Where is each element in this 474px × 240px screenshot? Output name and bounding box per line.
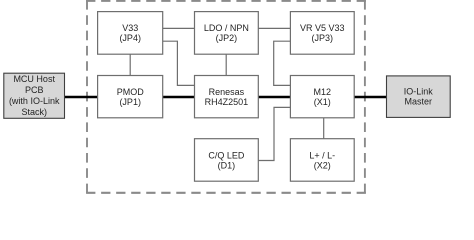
svg-text:L+ / L-: L+ / L- (309, 150, 335, 160)
wire (thick) M12 to IO-Link Master (354, 96, 386, 98)
block M12 (X1) (290, 76, 354, 118)
dashed evaluation-board boundary (86, 0, 366, 193)
wire (thick) Renesas to M12 (258, 96, 290, 98)
svg-text:(JP3): (JP3) (312, 33, 334, 43)
block V33 (JP4) (98, 12, 163, 55)
block MCU Host PCB (gray, external) (4, 73, 65, 118)
wire M12 to L+/L- (323, 118, 325, 139)
svg-text:IO-Link: IO-Link (404, 87, 434, 97)
svg-text:RH4Z2501: RH4Z2501 (205, 97, 249, 107)
svg-text:M12: M12 (314, 87, 332, 97)
wire LDO/NPN to VR V5 V33 (258, 27, 290, 29)
wire V33 to Renesas (elbow) (163, 41, 195, 85)
svg-text:MCU Host: MCU Host (13, 74, 55, 84)
block PMOD (JP1) (98, 76, 163, 118)
wire V33 to PMOD (129, 54, 131, 75)
block C/Q LED (D1) (195, 139, 259, 182)
svg-text:(X1): (X1) (314, 97, 331, 107)
svg-text:C/Q LED: C/Q LED (208, 150, 245, 160)
svg-text:Master: Master (405, 97, 433, 107)
svg-text:(D1): (D1) (218, 160, 236, 170)
block LDO / NPN (JP2) (195, 12, 259, 55)
svg-text:(with IO-Link: (with IO-Link (9, 96, 60, 106)
svg-text:(X2): (X2) (314, 160, 331, 170)
block IO-Link Master (gray, external) (387, 76, 451, 118)
wire C/Q LED to M12 (elbow) (258, 107, 290, 160)
svg-text:VR V5 V33: VR V5 V33 (300, 23, 345, 33)
svg-text:PMOD: PMOD (117, 87, 145, 97)
svg-text:(JP1): (JP1) (119, 97, 141, 107)
block VR V5 V33 (JP3) (290, 12, 354, 55)
svg-text:PCB: PCB (25, 85, 44, 95)
svg-text:LDO / NPN: LDO / NPN (204, 23, 249, 33)
wire LDO/NPN to Renesas (225, 54, 227, 75)
wire VR V5 V33 to M12 (elbow) (274, 41, 291, 85)
svg-text:Renesas: Renesas (209, 87, 245, 97)
svg-text:Stack): Stack) (21, 107, 47, 117)
wire V33 to LDO/NPN (163, 27, 195, 29)
svg-text:V33: V33 (122, 23, 138, 33)
block U1 Renesas RH4Z2501 transceiver (195, 76, 259, 118)
wire (thick) MCU Host PCB to PMOD (65, 96, 98, 98)
block L+/L- (X2) (290, 139, 354, 182)
wire (thick) PMOD to Renesas (163, 96, 195, 98)
svg-text:(JP2): (JP2) (216, 33, 238, 43)
svg-text:(JP4): (JP4) (119, 33, 141, 43)
